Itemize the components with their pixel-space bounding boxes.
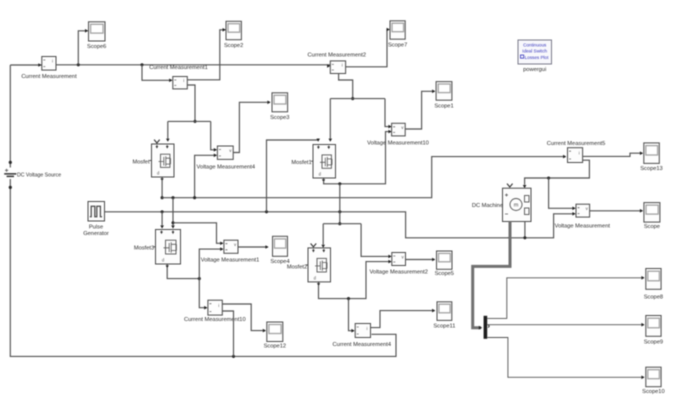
node bbox=[338, 210, 341, 213]
scope Scope13 bbox=[644, 143, 660, 164]
wire mosfet2 source bbox=[319, 260, 392, 299]
label Pulse Generator bbox=[83, 225, 109, 238]
wire VM4 minus bbox=[195, 154, 217, 198]
node bbox=[523, 236, 526, 239]
node bbox=[338, 182, 341, 185]
dc machine M1 bbox=[503, 188, 532, 221]
node bbox=[347, 297, 350, 300]
svg-text:Scope5: Scope5 bbox=[435, 271, 454, 277]
scope Scope10 bbox=[646, 367, 661, 387]
wire bbox=[324, 130, 392, 184]
current measurement CM1 bbox=[173, 77, 188, 89]
label Mosfet bbox=[132, 160, 149, 166]
wire bbox=[187, 85, 195, 121]
wire mosfet1 right gate bbox=[329, 99, 333, 142]
current measurement CM4 bbox=[355, 324, 370, 338]
wire CM5 to Scope13 bbox=[583, 151, 644, 156]
wire VM plus bbox=[549, 178, 576, 210]
wire mosfet3 left gate bbox=[160, 212, 164, 229]
svg-text:Current Measurement: Current Measurement bbox=[21, 74, 77, 80]
svg-text:Scope6: Scope6 bbox=[87, 44, 106, 50]
scope Scope6 bbox=[89, 22, 106, 41]
label DC Machine bbox=[472, 203, 503, 209]
svg-text:i: i bbox=[52, 59, 53, 64]
node bbox=[198, 277, 201, 280]
svg-text:Generator: Generator bbox=[83, 231, 109, 237]
label Scope6 bbox=[87, 44, 106, 50]
node bbox=[351, 97, 354, 100]
label Scope12 bbox=[264, 344, 286, 350]
voltage measurement VM bbox=[576, 204, 590, 217]
node bbox=[232, 355, 235, 358]
node bbox=[338, 222, 341, 225]
svg-text:Mosfet: Mosfet bbox=[132, 160, 149, 166]
scope Scope3 bbox=[272, 93, 288, 112]
wire VM10 plus bbox=[385, 99, 392, 129]
svg-text:i: i bbox=[579, 150, 580, 155]
label Scope13 bbox=[640, 166, 662, 172]
wire to VM1 plus bbox=[173, 223, 223, 245]
demux bus selector bbox=[484, 316, 490, 339]
label Scope bbox=[644, 224, 660, 230]
wire VM1 minus bbox=[199, 247, 223, 278]
label Current Measurement1 bbox=[149, 65, 207, 71]
wire bbox=[56, 64, 330, 68]
open port marker bbox=[154, 140, 160, 143]
label Scope1 bbox=[434, 103, 453, 109]
powergui block bbox=[518, 40, 552, 64]
pulse generator bbox=[88, 202, 105, 222]
wire mosfet2 gates bbox=[339, 212, 341, 224]
svg-text:Scope2: Scope2 bbox=[224, 43, 243, 49]
wire bbox=[234, 334, 397, 356]
label Scope11 bbox=[433, 324, 455, 330]
svg-text:Voltage Measurement2: Voltage Measurement2 bbox=[369, 269, 428, 275]
thick bus wire bbox=[473, 222, 510, 330]
label Current Measurement2 bbox=[308, 52, 366, 58]
svg-text:Mosfet3: Mosfet3 bbox=[134, 246, 154, 252]
label powergui bbox=[523, 67, 546, 73]
svg-text:Ideal Switch: Ideal Switch bbox=[522, 49, 547, 54]
scope Scope9 bbox=[646, 316, 661, 337]
label Mosfet1 bbox=[291, 160, 311, 166]
label Voltage Measurement bbox=[555, 224, 611, 230]
svg-text:m: m bbox=[514, 203, 519, 209]
label Scope4 bbox=[270, 259, 289, 265]
current measurement CM bbox=[42, 57, 56, 71]
svg-text:Current Measurement2: Current Measurement2 bbox=[308, 52, 366, 58]
wire CM2 lower bbox=[339, 74, 353, 99]
svg-text:Scope3: Scope3 bbox=[270, 115, 289, 121]
svg-text:Current Measurement10: Current Measurement10 bbox=[184, 317, 246, 323]
label Current Measurement bbox=[21, 74, 77, 80]
scope Scope7 bbox=[390, 21, 405, 39]
wire CM2 to Scope7 bbox=[346, 28, 390, 67]
scope Scope1 bbox=[436, 82, 452, 101]
svg-text:DC Voltage Source: DC Voltage Source bbox=[17, 172, 61, 178]
open port TL bbox=[507, 184, 513, 187]
svg-text:Scope12: Scope12 bbox=[264, 344, 286, 350]
wire CM5 loop bbox=[523, 160, 590, 188]
current measurement CM5 bbox=[568, 148, 583, 163]
scope Scope8 bbox=[646, 269, 661, 290]
svg-text:Pulse: Pulse bbox=[89, 225, 103, 231]
label Voltage Measurement10 bbox=[367, 141, 429, 147]
label Voltage Measurement4 bbox=[197, 165, 256, 171]
wire bbox=[171, 198, 175, 229]
svg-text:Voltage Measurement10: Voltage Measurement10 bbox=[367, 141, 429, 147]
wire to Scope8 bbox=[487, 276, 644, 318]
svg-text:Scope7: Scope7 bbox=[388, 43, 407, 49]
wire CM10 to Scope12 bbox=[222, 304, 266, 332]
voltage measurement VM2 bbox=[392, 253, 406, 266]
scope Scope2 bbox=[226, 21, 241, 39]
scope Scope11 bbox=[437, 302, 452, 321]
svg-text:i: i bbox=[218, 303, 219, 308]
node bbox=[171, 221, 174, 224]
voltage measurement VM1 bbox=[224, 240, 238, 253]
wire bbox=[142, 65, 172, 82]
wire to CM10 bbox=[199, 279, 207, 310]
wire CM10 lower bbox=[222, 311, 233, 356]
wire bbox=[167, 268, 199, 279]
wire CM4 to Scope11 bbox=[371, 309, 436, 328]
current measurement CM2 bbox=[330, 61, 345, 74]
svg-text:Voltage Measurement4: Voltage Measurement4 bbox=[197, 165, 256, 171]
label Scope9 bbox=[644, 340, 663, 346]
wire to Mosfet gate bbox=[166, 121, 170, 141]
wire to Scope6 bbox=[78, 29, 88, 65]
svg-text:Scope11: Scope11 bbox=[433, 324, 455, 330]
svg-text:Scope: Scope bbox=[644, 224, 660, 230]
svg-text:i: i bbox=[342, 63, 343, 68]
wire VM4 to Scope3 bbox=[233, 101, 270, 153]
svg-text:powergui: powergui bbox=[523, 67, 546, 73]
scope Scope bbox=[644, 203, 660, 223]
wire VM to Scope bbox=[590, 209, 644, 213]
wire to Scope9 bbox=[487, 323, 644, 327]
wire bbox=[323, 223, 361, 225]
wire VM2 to Scope5 bbox=[406, 258, 436, 262]
label Scope2 bbox=[224, 43, 243, 49]
wire to Scope10 bbox=[487, 338, 644, 380]
mosfet Q2 Mosfet1 bbox=[311, 145, 336, 183]
node bbox=[547, 176, 550, 179]
node bbox=[508, 236, 511, 239]
mosfet Q1 Mosfet bbox=[150, 144, 175, 181]
svg-text:i: i bbox=[367, 326, 368, 331]
wire VM10 to Scope1 bbox=[405, 90, 435, 130]
label Current Measurement4 bbox=[333, 342, 391, 348]
node bbox=[140, 63, 143, 66]
node bbox=[193, 196, 196, 199]
node bbox=[161, 196, 164, 199]
wire bbox=[339, 184, 341, 212]
svg-text:Voltage Measurement1: Voltage Measurement1 bbox=[201, 258, 260, 264]
svg-text:Scope9: Scope9 bbox=[644, 340, 663, 346]
label Voltage Measurement2 bbox=[369, 269, 428, 275]
node bbox=[161, 210, 164, 213]
node bbox=[265, 210, 268, 213]
label Scope5 bbox=[435, 271, 454, 277]
svg-text:Current Measurement4: Current Measurement4 bbox=[333, 342, 391, 348]
svg-text:Scope1: Scope1 bbox=[434, 103, 453, 109]
svg-text:Continuous: Continuous bbox=[523, 43, 547, 48]
label Current Measurement10 bbox=[184, 317, 246, 323]
wire VM1 to Scope4 bbox=[238, 245, 269, 249]
wire bbox=[168, 120, 211, 122]
label Mosfet3 bbox=[134, 246, 154, 252]
svg-text:Mosfet2: Mosfet2 bbox=[287, 265, 307, 271]
label Scope8 bbox=[644, 294, 663, 300]
DC voltage source V1 bbox=[4, 161, 16, 189]
label Scope3 bbox=[270, 115, 289, 121]
label Scope10 bbox=[642, 389, 664, 395]
wire drain bus to CM5 bbox=[162, 155, 566, 198]
current measurement CM10 bbox=[208, 300, 222, 315]
mosfet Q4 Mosfet2 bbox=[306, 248, 331, 286]
svg-text:i: i bbox=[183, 78, 184, 83]
node bbox=[193, 120, 196, 123]
voltage measurement VM4 bbox=[217, 146, 233, 159]
label Scope7 bbox=[388, 43, 407, 49]
wire mosfet1 left gate bbox=[267, 139, 321, 212]
open port marker bbox=[311, 244, 317, 247]
label Voltage Measurement1 bbox=[201, 258, 260, 264]
scope Scope4 bbox=[273, 236, 288, 256]
svg-text:Mosfet1: Mosfet1 bbox=[291, 160, 311, 166]
label Current Measurement5 bbox=[547, 141, 605, 147]
label Mosfet2 bbox=[287, 265, 307, 271]
svg-text:Current Measurement5: Current Measurement5 bbox=[547, 141, 605, 147]
svg-text:Scope8: Scope8 bbox=[644, 294, 663, 300]
svg-text:Losses Plot: Losses Plot bbox=[525, 55, 549, 60]
wire bbox=[330, 98, 385, 100]
wire bbox=[9, 65, 11, 168]
node bbox=[77, 63, 80, 66]
wire CM1 to Scope2 bbox=[187, 28, 226, 80]
wire mosfet2 right gate bbox=[321, 224, 325, 248]
label DC Voltage Source bbox=[17, 172, 61, 178]
wire bbox=[10, 179, 233, 356]
node bbox=[171, 196, 174, 199]
svg-text:Current Measurement1: Current Measurement1 bbox=[149, 65, 207, 71]
wire VM2 plus bbox=[361, 224, 392, 259]
wire to CM4 bbox=[349, 299, 355, 333]
scope Scope5 bbox=[437, 251, 453, 269]
svg-text:DC Machine: DC Machine bbox=[472, 203, 503, 209]
wire to VM4 plus bbox=[211, 121, 217, 151]
voltage measurement VM10 bbox=[392, 123, 406, 136]
scope Scope12 bbox=[267, 322, 283, 342]
svg-text:Scope10: Scope10 bbox=[642, 389, 664, 395]
wire bbox=[161, 180, 163, 198]
wire gate bus bbox=[105, 212, 576, 238]
wire bbox=[10, 63, 41, 67]
svg-text:Scope13: Scope13 bbox=[640, 166, 662, 172]
wire A minus bbox=[524, 222, 526, 238]
mosfet Q3 Mosfet3 bbox=[154, 230, 181, 269]
svg-text:Voltage Measurement: Voltage Measurement bbox=[555, 224, 611, 230]
